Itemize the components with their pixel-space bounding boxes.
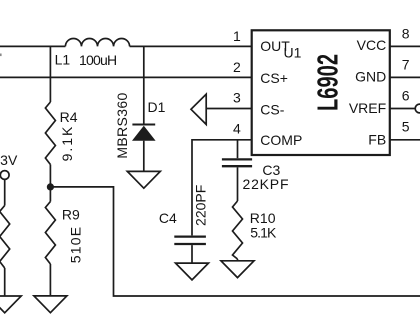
wire: R9 to ground	[49, 264, 51, 296]
svg-text:220PF: 220PF	[193, 185, 209, 226]
resistor R10	[233, 201, 243, 259]
svg-text:C4: C4	[159, 210, 177, 226]
wire: IC pin 4 COMP to C4 top	[192, 140, 252, 236]
wire: L1 to IC pin 1 (OUT)	[130, 45, 252, 47]
svg-text:COMP: COMP	[260, 132, 302, 148]
svg-text:VREF: VREF	[349, 100, 386, 116]
inductor L1	[65, 38, 129, 46]
svg-text:CS+: CS+	[260, 70, 288, 86]
svg-text:CS-: CS-	[260, 101, 284, 117]
node arrow: CS- input terminal	[191, 94, 206, 124]
ground symbol (R10)	[221, 261, 254, 278]
svg-text:6: 6	[402, 88, 410, 104]
terminal circle (VREF, clipped)	[415, 104, 420, 113]
wire: D1 to ground	[143, 141, 145, 172]
ground symbol (R9)	[34, 296, 67, 313]
capacitor C3 plates	[222, 159, 252, 166]
svg-text:7: 7	[402, 57, 410, 73]
svg-text:100uH: 100uH	[79, 52, 116, 68]
wire: VCC stub (pin 8)	[390, 45, 420, 47]
diode D1 (triangle, cathode up)	[132, 126, 156, 141]
svg-text:1: 1	[233, 28, 241, 44]
wire: R10 to ground	[237, 259, 239, 261]
wire: junction to R9	[49, 187, 51, 202]
resistor R9	[45, 202, 55, 265]
wire: C3 to R10	[237, 167, 239, 201]
ground symbol (left chain)	[0, 296, 21, 313]
wire: rail1 to D1	[143, 46, 145, 124]
ground symbol (D1)	[127, 171, 160, 188]
wire: COMP net tap to C3 top	[237, 140, 239, 158]
wire: CS+ rail to IC pin 2	[0, 76, 252, 78]
wire: rail1 to R4	[49, 46, 51, 102]
svg-text:22KPF: 22KPF	[243, 176, 290, 192]
ground symbol (C4)	[176, 263, 209, 280]
svg-text:VCC: VCC	[357, 37, 387, 53]
svg-text:FB: FB	[368, 132, 386, 148]
svg-text:510E: 510E	[67, 226, 83, 264]
svg-text:2: 2	[233, 59, 241, 75]
terminal circle (3.3V)	[0, 171, 9, 180]
svg-text:L6902: L6902	[313, 54, 345, 111]
wire: GND stub (pin 7)	[390, 76, 420, 78]
svg-text:D1: D1	[148, 99, 166, 115]
wire: R4 to junction	[49, 165, 51, 187]
resistor (left chain, unlabeled)	[0, 206, 10, 269]
wire: VREF stub (pin 6)	[390, 108, 415, 110]
diode D1 cathode bar	[132, 124, 155, 126]
wire: input rail to L1 (pin1 net, left segment)	[0, 45, 65, 47]
resistor R4	[45, 102, 55, 165]
svg-text:MBRS360: MBRS360	[114, 92, 130, 158]
wire: junction to bottom rail (feedback net)	[50, 187, 420, 296]
svg-text:5: 5	[402, 118, 410, 134]
wire: CS- stub to IC pin 3	[206, 108, 252, 110]
svg-text:5.1K: 5.1K	[250, 224, 277, 240]
svg-text:3.3V: 3.3V	[0, 152, 18, 168]
IC U1 L6902 body	[252, 30, 390, 155]
stray mark at left edge	[0, 54, 2, 57]
wire: 3.3V terminal to resistor	[4, 179, 6, 205]
wire: C4 to ground	[191, 245, 193, 263]
svg-text:4: 4	[233, 121, 241, 137]
wire: left resistor to ground	[4, 268, 6, 296]
junction dot (R4/R9 node)	[47, 183, 54, 190]
svg-text:9.1K: 9.1K	[59, 125, 75, 162]
svg-text:R9: R9	[62, 207, 80, 223]
svg-text:L1: L1	[55, 51, 71, 67]
svg-text:OUT: OUT	[260, 38, 290, 54]
wire: FB stub (pin 5)	[390, 139, 420, 141]
svg-text:8: 8	[402, 26, 410, 42]
svg-text:GND: GND	[355, 69, 386, 85]
svg-text:3: 3	[233, 90, 241, 106]
svg-text:R4: R4	[60, 109, 78, 125]
capacitor C4 plates	[174, 237, 206, 244]
